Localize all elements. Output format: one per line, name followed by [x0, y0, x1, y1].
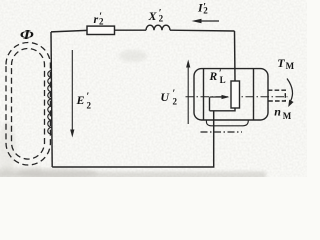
svg-text:L: L [220, 75, 226, 85]
svg-text:2: 2 [99, 17, 104, 27]
svg-text:2: 2 [203, 5, 208, 15]
svg-text:R: R [209, 71, 218, 83]
svg-text:n: n [274, 104, 281, 118]
svg-text:E: E [76, 93, 85, 107]
svg-text:M: M [286, 61, 295, 71]
svg-text:2: 2 [87, 101, 92, 111]
svg-text:M: M [283, 111, 292, 121]
svg-text:T: T [277, 56, 285, 70]
svg-text:2: 2 [159, 14, 164, 24]
svg-text:X: X [148, 9, 158, 23]
svg-text:2: 2 [173, 96, 178, 106]
svg-text:r: r [94, 12, 99, 26]
svg-text:Φ: Φ [20, 27, 34, 42]
svg-text:U: U [160, 90, 170, 104]
